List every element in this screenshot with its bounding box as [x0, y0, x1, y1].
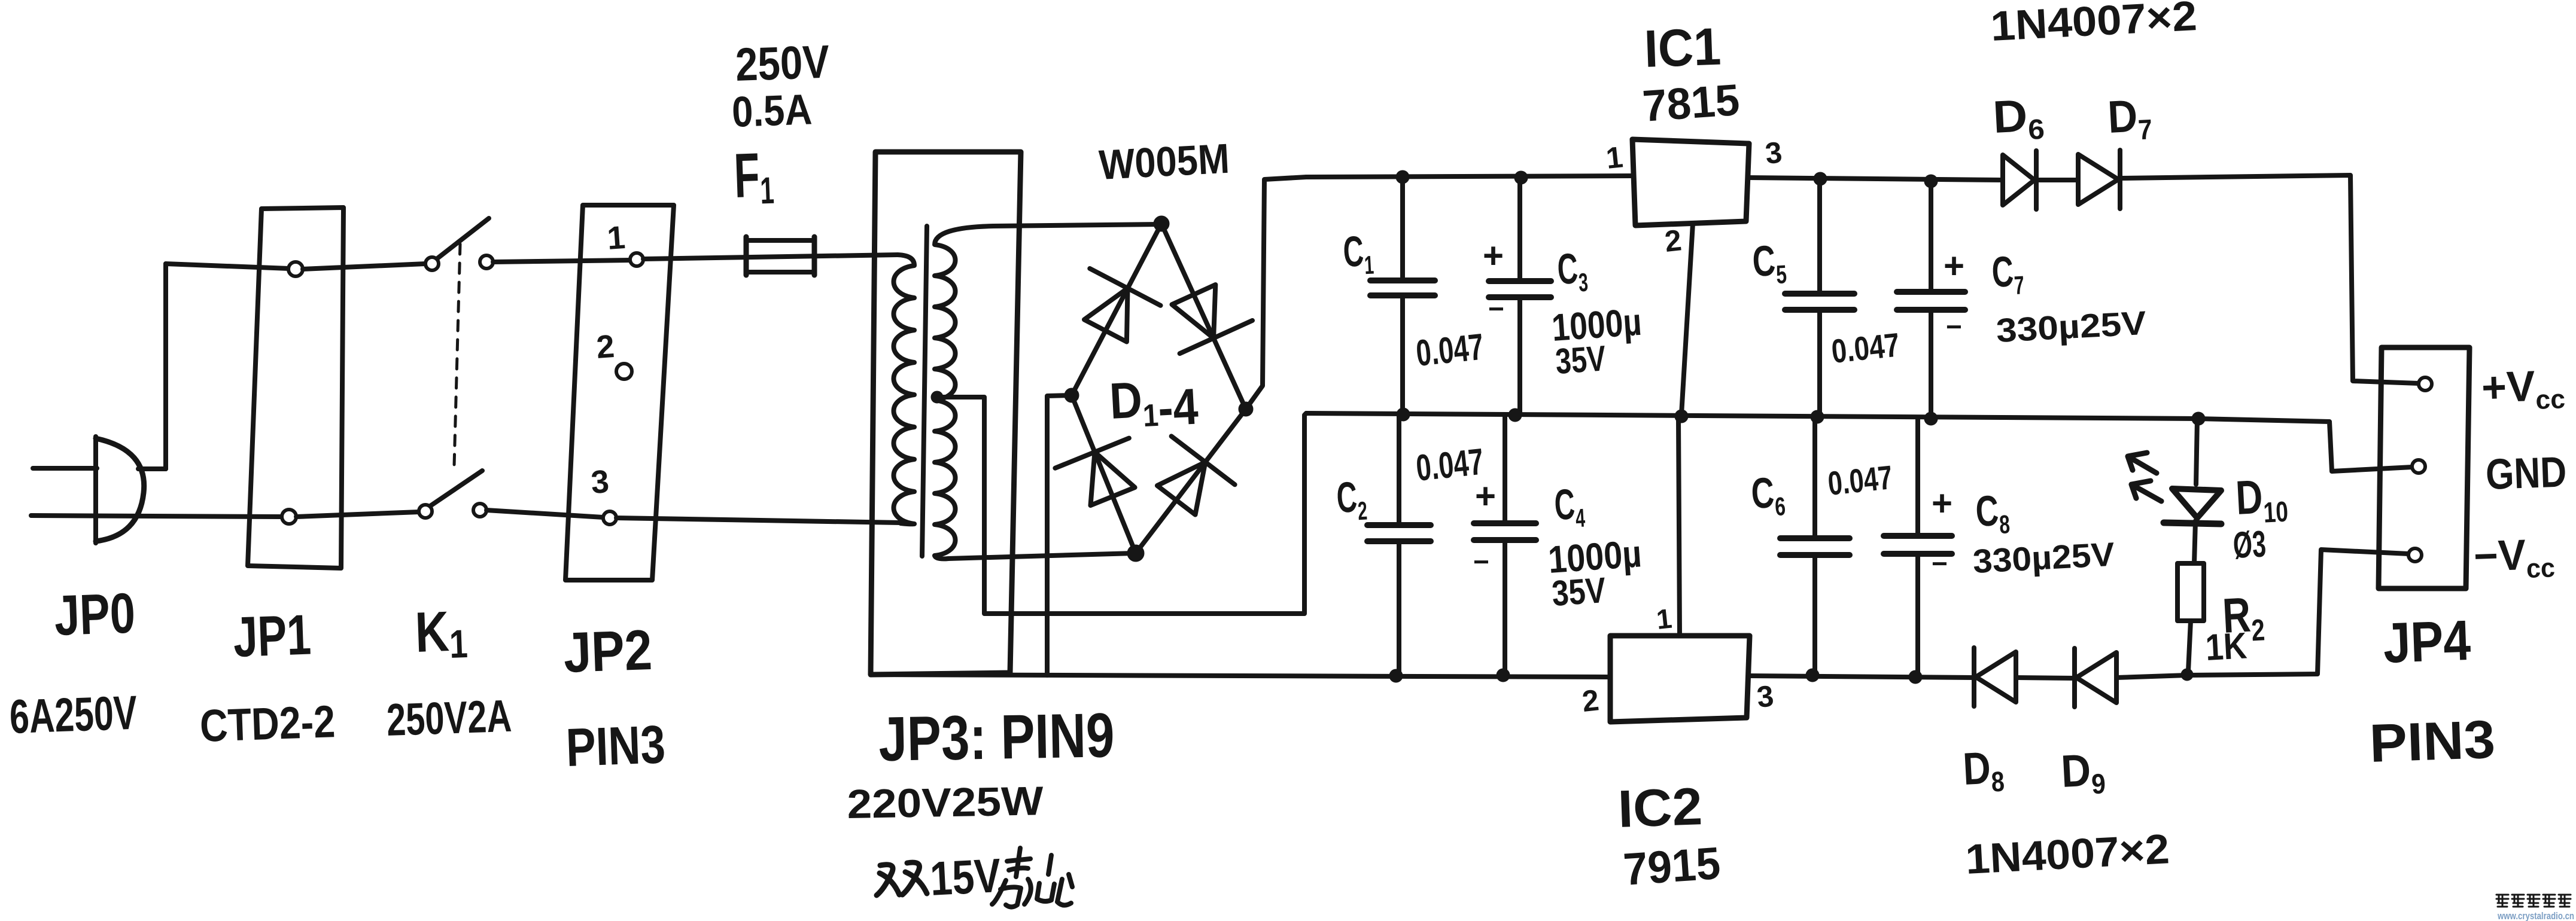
wire mid rail to LED D10: [2196, 419, 2197, 484]
svg-text:PIN3: PIN3: [2368, 710, 2496, 774]
wire K1 to JP2 pin3: [486, 510, 603, 517]
capacitor C7: [1929, 181, 1933, 289]
wire IC1 pin2 to mid rail: [1681, 224, 1693, 414]
op-amp regulator IC1 7815: [1632, 139, 1749, 225]
svg-text:+: +: [1483, 236, 1504, 276]
bottom rail (-): [871, 675, 1610, 677]
capacitor C6: [1812, 417, 1817, 536]
svg-text:−: −: [1932, 548, 1948, 579]
capacitor C8: [1915, 419, 1920, 533]
top rail (+): [1306, 176, 1632, 177]
svg-text:CTD2-2: CTD2-2: [199, 696, 336, 752]
capacitor C5: [1817, 179, 1822, 291]
svg-text:PIN3: PIN3: [565, 715, 666, 778]
transformer T1 secondary winding: [935, 226, 993, 556]
diode D7: [2078, 154, 2118, 205]
JP4 pin +Vcc: [2419, 377, 2432, 391]
diode D1: [1084, 288, 1128, 342]
JP2 pin 1: [630, 253, 643, 266]
connector JP1: [248, 208, 343, 568]
center tap wire to mid rail: [937, 397, 1306, 614]
svg-text:220V25W: 220V25W: [847, 778, 1044, 827]
diode D6: [2003, 155, 2034, 205]
op-amp regulator IC2 7915: [1610, 636, 1750, 722]
wire LED to R2: [2194, 521, 2195, 563]
JP1 pin upper: [288, 262, 303, 276]
connector JP4: [2379, 347, 2469, 588]
svg-text:3: 3: [1763, 135, 1784, 170]
capacitor C2: [1397, 414, 1401, 523]
wire R2 to bottom rail: [2188, 621, 2191, 671]
bridge edge bottom-right: [1136, 409, 1246, 553]
svg-text:IC2: IC2: [1617, 776, 1703, 838]
svg-text:3: 3: [590, 463, 610, 501]
svg-text:2: 2: [1580, 683, 1601, 718]
svg-text:330µ25V: 330µ25V: [1972, 535, 2115, 580]
svg-text:1K: 1K: [2204, 625, 2248, 669]
wire IC2 pin1 to mid rail: [1678, 419, 1680, 636]
svg-text:JP0: JP0: [53, 581, 136, 648]
svg-text:35V: 35V: [1550, 570, 1607, 614]
JP4 pin -Vcc: [2408, 548, 2422, 562]
wire bridge left node to bottom rail: [1047, 395, 1072, 675]
JP2 pin 3: [603, 511, 616, 524]
svg-text:3: 3: [1755, 679, 1775, 714]
diode D8: [1976, 652, 2016, 702]
svg-text:JP4: JP4: [2382, 609, 2472, 675]
watermark crystalradio logo: [2496, 895, 2571, 907]
wire K1 to JP2 pin1: [493, 260, 630, 262]
JP4 pin GND: [2412, 460, 2425, 473]
svg-text:IC1: IC1: [1643, 17, 1722, 78]
wire JP1 to K1 top: [303, 264, 425, 269]
connector box JP3: [871, 152, 1021, 675]
connector JP2: [565, 205, 674, 580]
transformer T1 primary winding: [894, 255, 915, 524]
svg-text:250V: 250V: [735, 35, 831, 91]
fuse F1: [746, 240, 814, 272]
svg-text:0.5A: 0.5A: [731, 86, 813, 136]
node bridge left: [1065, 388, 1079, 402]
diode D2: [1172, 285, 1216, 338]
wire bridge right node to top rail: [1246, 177, 1306, 409]
svg-text:www.crystalradio.cn: www.crystalradio.cn: [2497, 910, 2574, 921]
diode D9: [2076, 652, 2116, 703]
svg-text:JP1: JP1: [232, 603, 312, 669]
svg-text:15V: 15V: [929, 849, 1002, 905]
svg-text:−: −: [1488, 293, 1504, 324]
svg-text:7915: 7915: [1622, 838, 1722, 895]
svg-text:2: 2: [595, 328, 616, 365]
wire JP2 pin1 to transformer primary: [643, 255, 898, 259]
wire JP2 pin3 to primary bottom: [616, 518, 901, 523]
node bridge right: [1239, 402, 1253, 416]
svg-text:0.047: 0.047: [1830, 325, 1902, 370]
transformer core: [922, 226, 927, 556]
secondary top wire to bridge: [993, 224, 1161, 226]
svg-text:1: 1: [1655, 603, 1674, 635]
svg-text:35V: 35V: [1554, 338, 1607, 382]
svg-text:2: 2: [1663, 223, 1683, 258]
svg-text:GND: GND: [2485, 448, 2568, 499]
svg-text:JP3: PIN9: JP3: PIN9: [878, 700, 1115, 774]
svg-text:Ø3: Ø3: [2232, 523, 2267, 566]
bridge edge top-left: [1072, 224, 1161, 395]
mid rail (GND): [1306, 413, 2412, 471]
svg-text:250V2A: 250V2A: [386, 691, 513, 746]
svg-text:6A250V: 6A250V: [8, 686, 138, 743]
JP2 pin 2: [616, 364, 632, 379]
LED D10: [2172, 489, 2221, 518]
node bridge top: [1154, 216, 1169, 231]
svg-text:1: 1: [1604, 140, 1625, 175]
resistor R2: [2177, 563, 2204, 621]
JP1 pin lower: [282, 510, 296, 524]
wire plug to top rail: [163, 264, 168, 469]
top rail continues after IC1: [1749, 178, 2003, 180]
svg-text:+: +: [1932, 483, 1952, 523]
svg-text:JP2: JP2: [562, 618, 653, 685]
svg-text:W005M: W005M: [1098, 135, 1231, 188]
svg-text:+: +: [1944, 246, 1964, 286]
bridge edge top-right: [1161, 224, 1246, 409]
label 双15V输出 (hand strokes): [877, 862, 927, 895]
svg-text:−: −: [1946, 311, 1962, 342]
bridge edge bottom-left: [1072, 395, 1136, 553]
LED light arrows: [2128, 453, 2157, 473]
capacitor C3: [1517, 178, 1522, 279]
diode D3: [1091, 452, 1135, 505]
connector JP0 (AC plug): [33, 466, 97, 471]
svg-text:0.047: 0.047: [1414, 326, 1486, 374]
svg-text:+: +: [1475, 476, 1496, 516]
center tap junction: [931, 391, 943, 403]
capacitor C1: [1400, 177, 1405, 278]
svg-text:330µ25V: 330µ25V: [1995, 304, 2147, 349]
svg-text:−: −: [1473, 546, 1489, 577]
capacitor C4: [1503, 415, 1507, 521]
svg-text:7815: 7815: [1641, 75, 1741, 131]
node D10 branch: [2192, 412, 2205, 425]
node bridge bottom: [1127, 545, 1144, 562]
wire JP1 to K1 bottom: [296, 512, 419, 517]
svg-text:0.047: 0.047: [1826, 458, 1894, 502]
svg-text:1: 1: [606, 219, 626, 257]
switch K1: [425, 257, 439, 270]
diode D4: [1157, 462, 1205, 515]
